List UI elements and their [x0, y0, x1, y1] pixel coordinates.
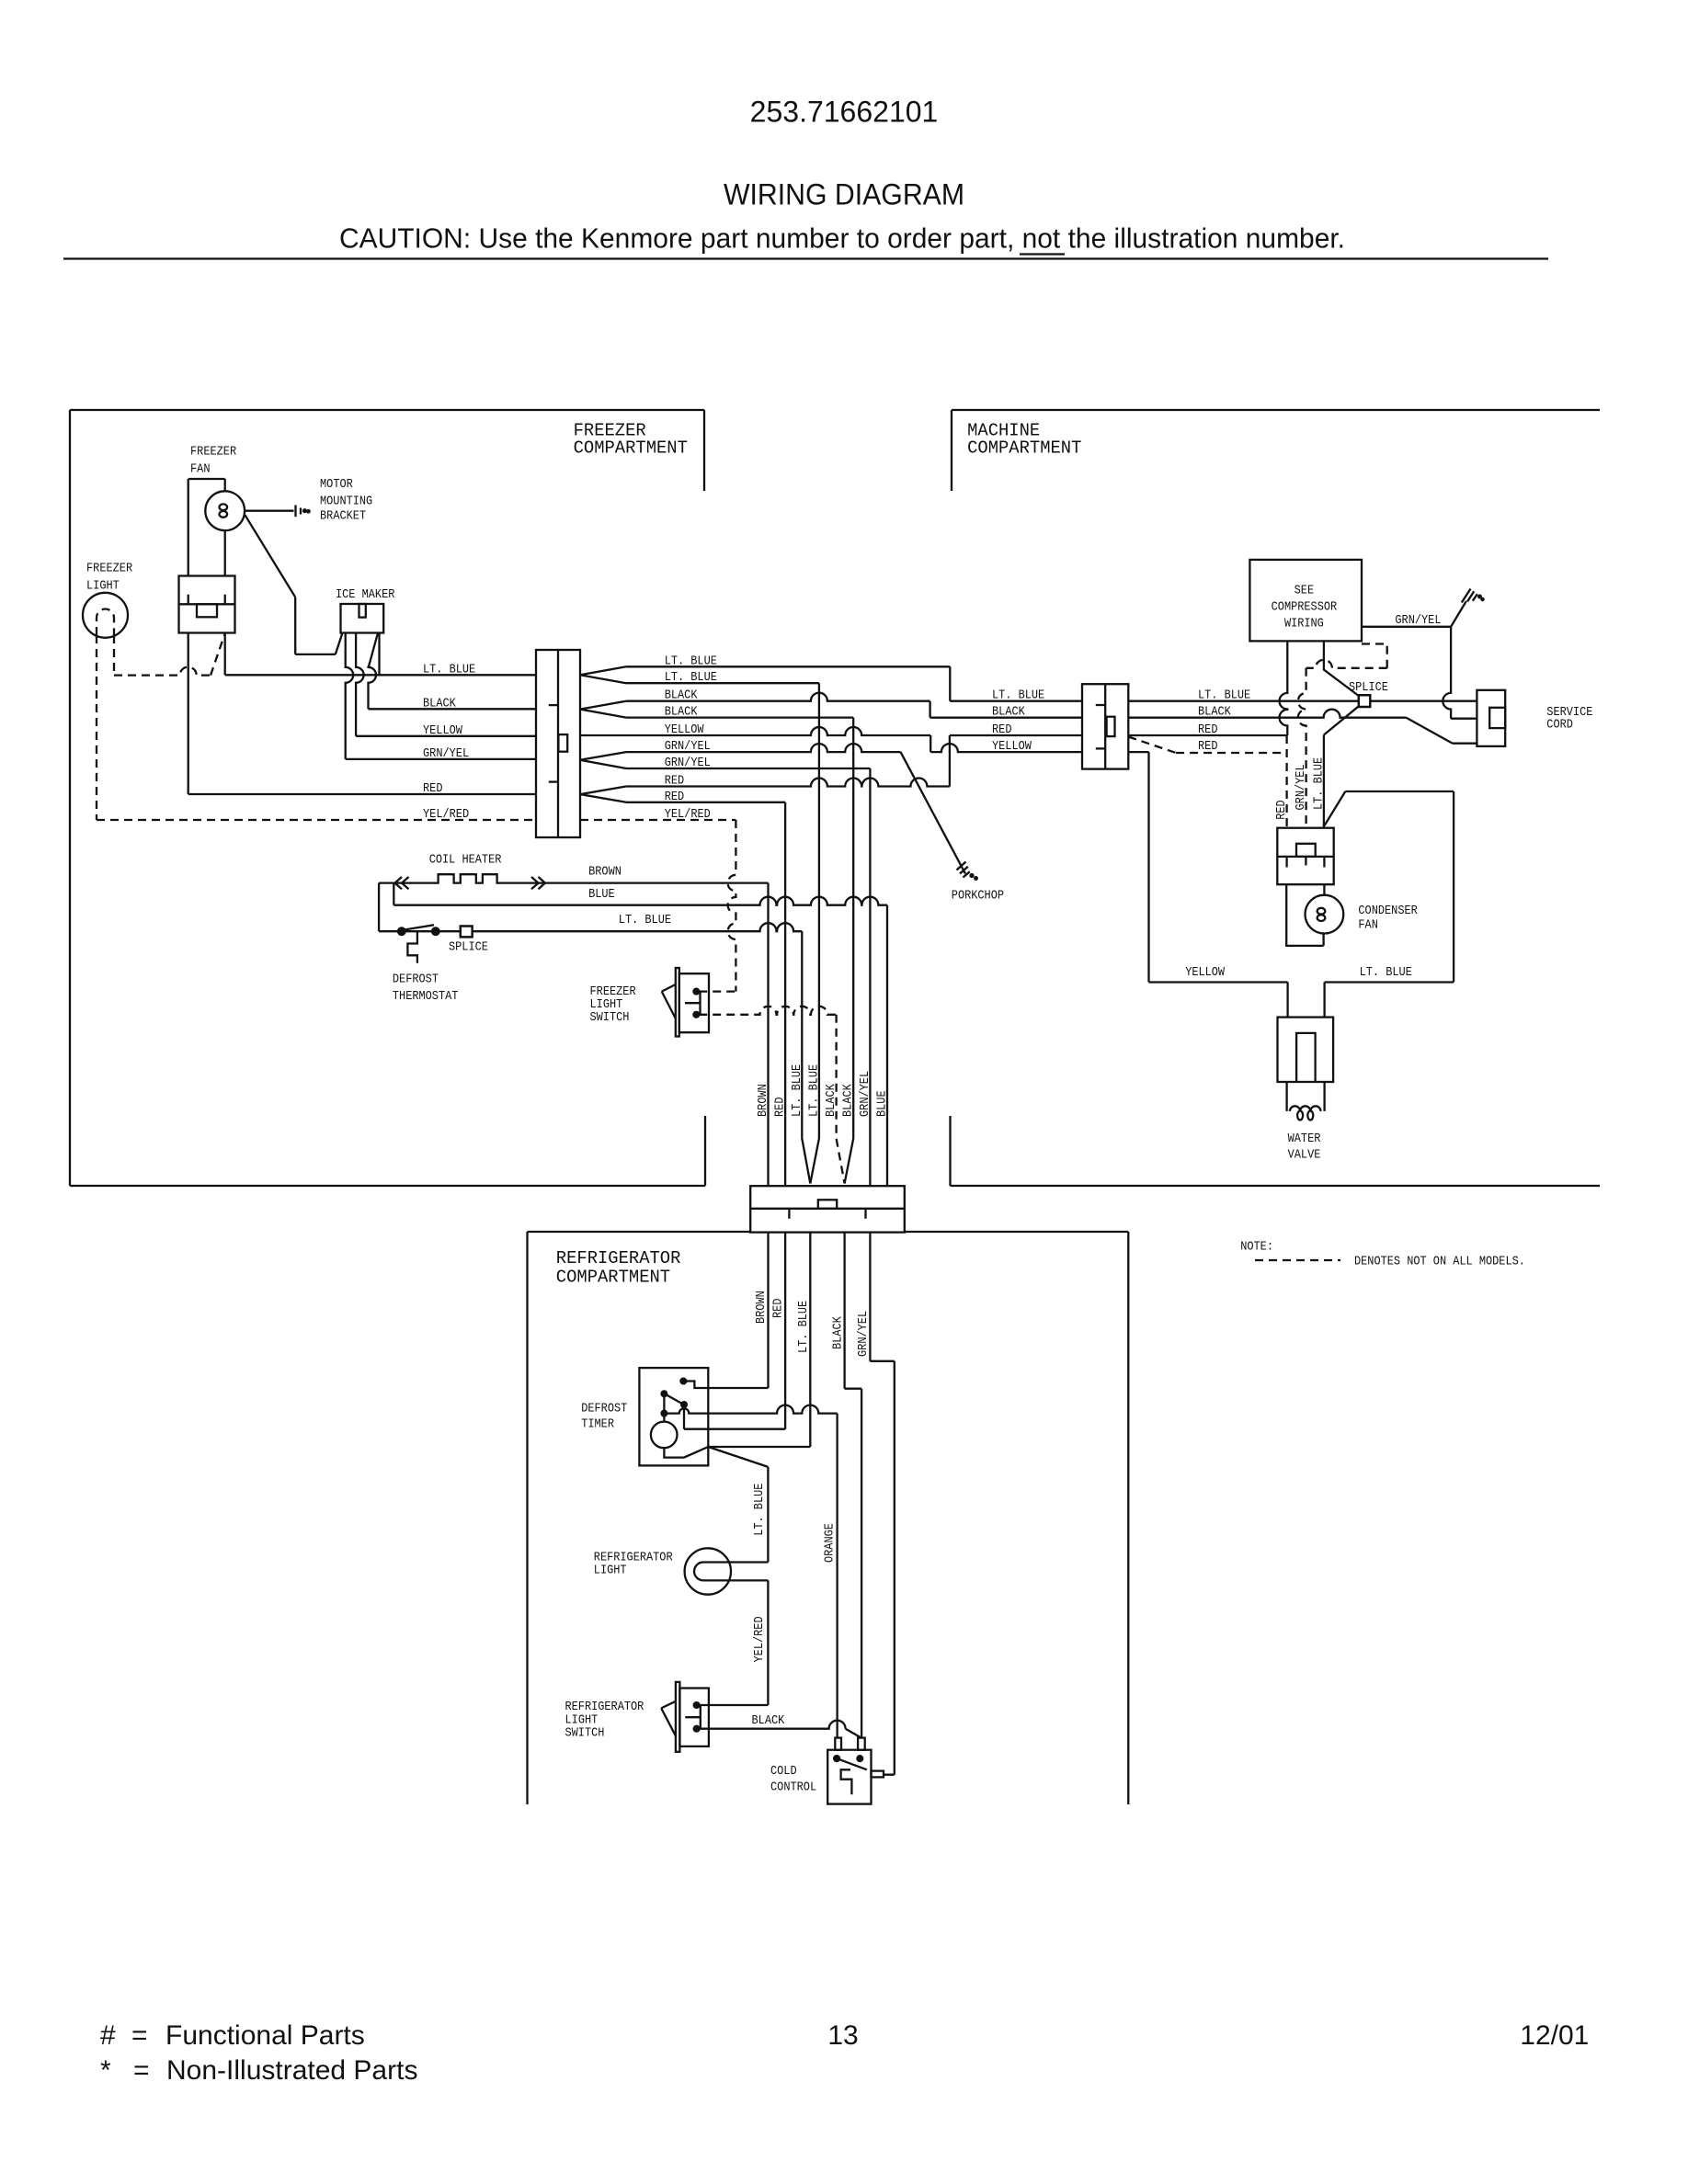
svg-text:TIMER: TIMER	[581, 1417, 614, 1432]
svg-text:BRACKET: BRACKET	[320, 509, 366, 524]
svg-text:BROWN: BROWN	[756, 1084, 770, 1117]
svg-text:RED: RED	[423, 781, 443, 796]
svg-text:LT. BLUE: LT. BLUE	[790, 1064, 804, 1117]
svg-text:LT. BLUE: LT. BLUE	[423, 662, 475, 677]
svg-text:COIL HEATER: COIL HEATER	[429, 853, 502, 868]
svg-text:WIRING: WIRING	[1284, 617, 1324, 631]
svg-text:VALVE: VALVE	[1288, 1148, 1321, 1163]
svg-text:13: 13	[827, 2020, 858, 2051]
svg-text:YELLOW: YELLOW	[1185, 965, 1225, 980]
svg-text:MOUNTING: MOUNTING	[320, 494, 372, 508]
svg-text:SPLICE: SPLICE	[449, 940, 488, 955]
svg-text:SWITCH: SWITCH	[565, 1726, 605, 1741]
svg-text:YEL/RED: YEL/RED	[752, 1616, 767, 1662]
svg-text:WIRING DIAGRAM: WIRING DIAGRAM	[724, 178, 964, 211]
svg-text:RED: RED	[1274, 800, 1289, 820]
svg-text:BLACK: BLACK	[830, 1316, 845, 1349]
svg-text:BROWN: BROWN	[588, 865, 622, 880]
svg-text:ORANGE: ORANGE	[823, 1523, 838, 1563]
svg-text:DEFROST: DEFROST	[393, 973, 439, 987]
svg-text:YEL/RED: YEL/RED	[423, 807, 469, 822]
svg-text:BLUE: BLUE	[588, 887, 615, 902]
svg-text:GRN/YEL: GRN/YEL	[858, 1071, 873, 1117]
svg-text:GRN/YEL: GRN/YEL	[856, 1311, 871, 1357]
svg-text:RED: RED	[773, 1098, 788, 1118]
svg-text:BLACK: BLACK	[752, 1713, 785, 1728]
svg-text:12/01: 12/01	[1520, 2020, 1589, 2051]
svg-text:BLACK: BLACK	[992, 705, 1025, 720]
svg-text:LIGHT: LIGHT	[594, 1563, 627, 1577]
svg-text:RED: RED	[771, 1299, 786, 1319]
svg-text:YELLOW: YELLOW	[992, 739, 1032, 754]
svg-text:YELLOW: YELLOW	[423, 723, 462, 738]
svg-text:GRN/YEL: GRN/YEL	[1395, 613, 1441, 628]
svg-text:BLACK: BLACK	[824, 1084, 838, 1117]
svg-text:Non-Illustrated Parts: Non-Illustrated Parts	[166, 2055, 417, 2086]
svg-text:LT. BLUE: LT. BLUE	[992, 688, 1044, 703]
svg-text:BLACK: BLACK	[423, 696, 456, 711]
svg-text:SEE: SEE	[1295, 583, 1315, 597]
svg-text:WATER: WATER	[1288, 1132, 1321, 1146]
svg-text:LIGHT: LIGHT	[86, 579, 120, 594]
svg-text:PORKCHOP: PORKCHOP	[952, 888, 1004, 903]
svg-text:BLACK: BLACK	[841, 1084, 856, 1117]
svg-text:THERMOSTAT: THERMOSTAT	[393, 989, 459, 1004]
svg-text:LT. BLUE: LT. BLUE	[1311, 757, 1326, 810]
svg-text:Functional Parts: Functional Parts	[165, 2020, 365, 2051]
svg-text:DENOTES NOT ON ALL MODELS.: DENOTES NOT ON ALL MODELS.	[1354, 1255, 1525, 1269]
svg-text:LT. BLUE: LT. BLUE	[796, 1301, 811, 1353]
svg-text:SWITCH: SWITCH	[590, 1010, 630, 1025]
svg-text:COLD: COLD	[770, 1764, 797, 1779]
svg-text:BROWN: BROWN	[754, 1291, 769, 1324]
svg-text:*: *	[100, 2055, 111, 2086]
svg-text:=: =	[131, 2020, 148, 2051]
svg-text:DEFROST: DEFROST	[581, 1402, 627, 1416]
svg-text:LT. BLUE: LT. BLUE	[1360, 965, 1412, 980]
svg-text:YEL/RED: YEL/RED	[665, 807, 711, 822]
svg-text:253.71662101: 253.71662101	[750, 96, 939, 129]
svg-text:CAUTION: Use the Kenmore part: CAUTION: Use the Kenmore part number to …	[339, 222, 1345, 255]
svg-text:CONDENSER: CONDENSER	[1358, 904, 1418, 918]
svg-text:COMPARTMENT: COMPARTMENT	[967, 438, 1081, 458]
svg-text:COMPRESSOR: COMPRESSOR	[1272, 599, 1338, 614]
svg-text:#: #	[100, 2020, 116, 2051]
svg-text:RED: RED	[1198, 739, 1218, 754]
svg-text:FAN: FAN	[190, 462, 211, 477]
svg-text:SPLICE: SPLICE	[1349, 680, 1388, 695]
svg-text:GRN/YEL: GRN/YEL	[423, 746, 469, 761]
svg-text:=: =	[133, 2055, 150, 2086]
svg-text:LT. BLUE: LT. BLUE	[806, 1064, 821, 1117]
svg-text:BLUE: BLUE	[875, 1090, 890, 1117]
svg-text:COMPARTMENT: COMPARTMENT	[574, 438, 688, 458]
svg-text:FREEZER: FREEZER	[190, 445, 237, 460]
svg-text:ICE MAKER: ICE MAKER	[336, 587, 395, 602]
svg-text:FAN: FAN	[1358, 918, 1378, 933]
svg-text:CONTROL: CONTROL	[770, 1780, 816, 1795]
svg-text:COMPARTMENT: COMPARTMENT	[556, 1268, 670, 1288]
svg-text:MOTOR: MOTOR	[320, 477, 353, 492]
svg-text:FREEZER: FREEZER	[86, 562, 133, 576]
svg-text:CORD: CORD	[1546, 718, 1573, 733]
svg-text:NOTE:: NOTE:	[1240, 1240, 1273, 1255]
svg-text:RED: RED	[992, 722, 1012, 737]
svg-text:REFRIGERATOR: REFRIGERATOR	[556, 1248, 681, 1268]
svg-text:LT. BLUE: LT. BLUE	[752, 1484, 767, 1536]
svg-text:LT. BLUE: LT. BLUE	[619, 913, 671, 927]
svg-text:GRN/YEL: GRN/YEL	[1294, 764, 1308, 810]
